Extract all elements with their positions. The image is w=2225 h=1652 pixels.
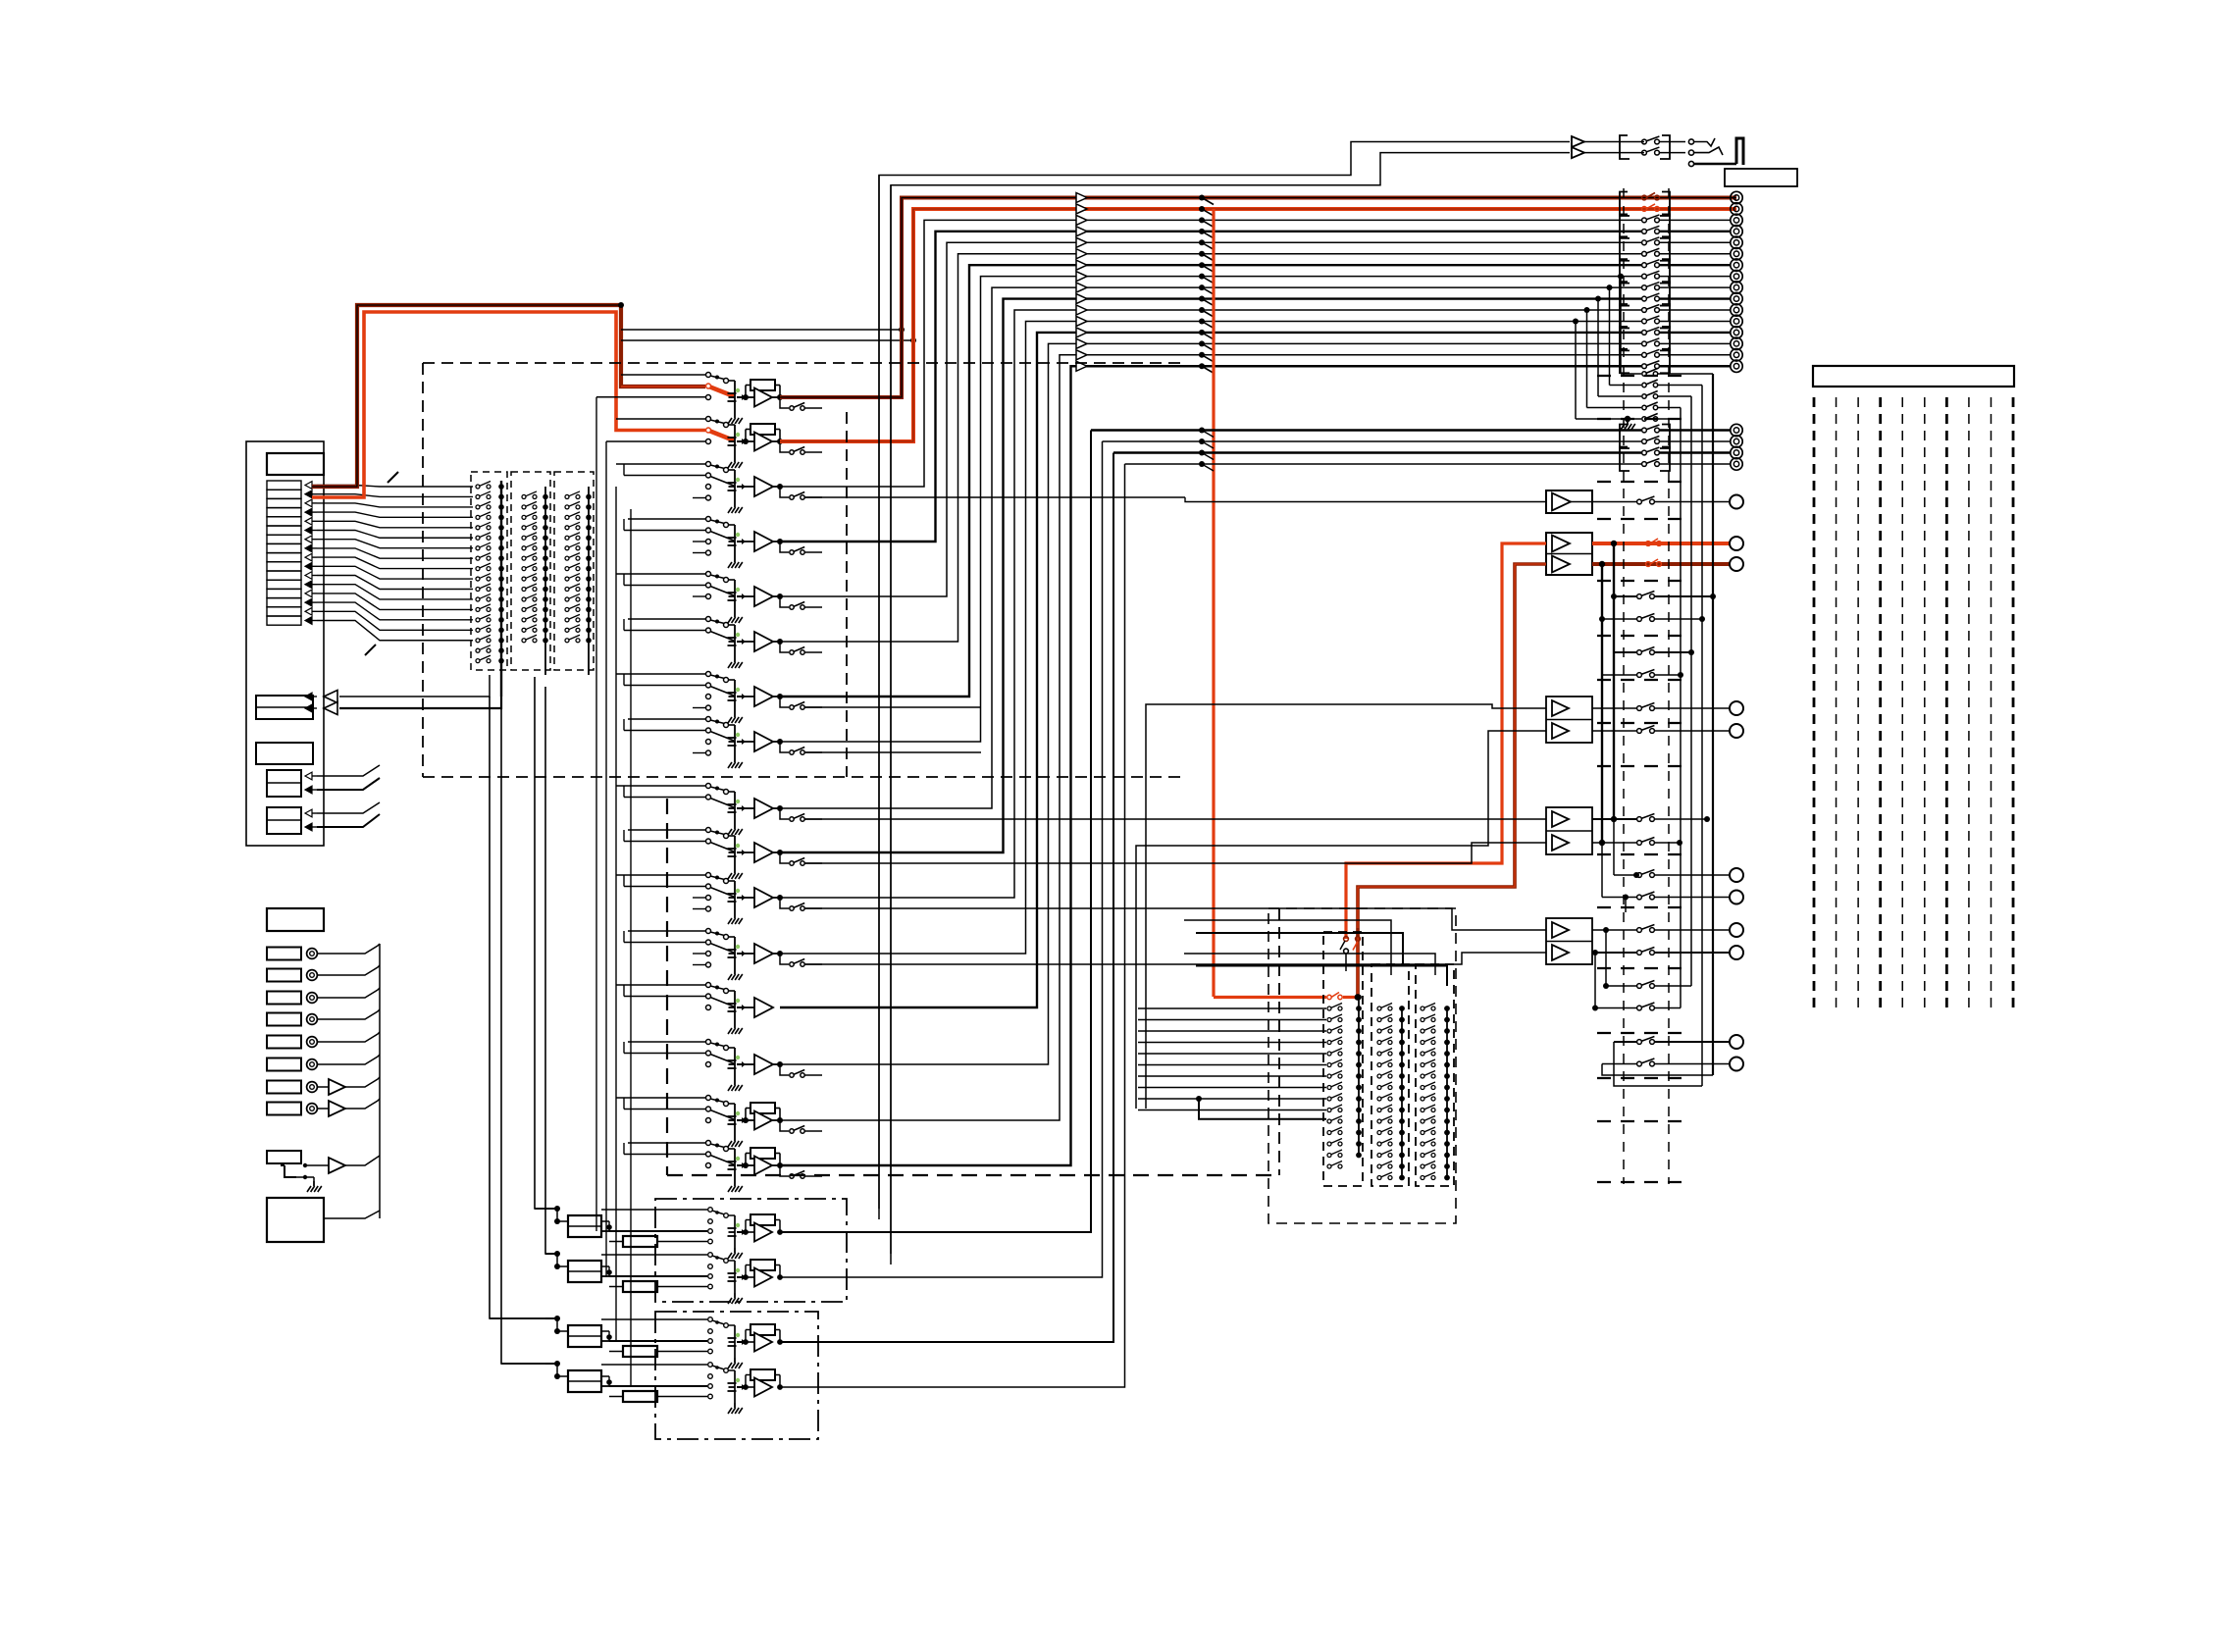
channel group 9 (switch, level, buffer U9, ground) (706, 784, 711, 789)
red vertical switch (1344, 937, 1349, 942)
bus branch wire y336 (621, 329, 902, 331)
red channel2 output to bundle line2 (780, 209, 1736, 441)
RCA input row 4 (267, 1013, 301, 1026)
jack contact 1 (1688, 139, 1693, 144)
channel group 16 (switch, level, buffer U16, ground) (706, 1141, 711, 1146)
channel group 5 (switch, level, buffer U5, ground) (706, 572, 711, 577)
channel group 2 (switch, level, buffer U2, ground) (706, 417, 711, 422)
red loop wire dark (tape in 1 to channel1) (312, 305, 705, 487)
dashed box B (mono channels) (666, 799, 668, 1175)
matrix C feeds col2-col3 (1184, 920, 1391, 975)
bus slash mark upper (388, 472, 398, 483)
aux row arrow 1 (305, 693, 312, 700)
left 2-row box B2 (267, 807, 301, 834)
resistor network group 1 (554, 1206, 560, 1212)
pair3 line 1 (1592, 929, 1636, 931)
b2 arrow 2 (305, 823, 312, 831)
ribbon header box (1813, 366, 2014, 387)
switch matrix column 3 (565, 494, 569, 498)
mono switch (1637, 499, 1642, 504)
matrix C bus 2 (1401, 1008, 1403, 1178)
RCA input row 1 (267, 948, 301, 960)
left multipin connector stack (267, 481, 301, 490)
return switch group (bundle taps to monitors) (1618, 274, 1624, 280)
channel group 7 (switch, level, buffer U7, ground) (706, 672, 711, 677)
pair2 out row 2 (1602, 897, 1636, 899)
red feed R (1358, 564, 1546, 997)
pair1 input 1 (1146, 704, 1546, 1109)
channel group 10 (switch, level, buffer U10, ground) (706, 828, 711, 833)
ribbon cable dashed lines (1813, 397, 1816, 1013)
RCA input row 6 (267, 1058, 301, 1071)
b1 wire 2 (317, 778, 380, 790)
resistor network group 3 (554, 1316, 560, 1321)
matrix C bus 3 (1446, 1008, 1448, 1178)
output switch matrix (3 columns) (1356, 995, 1362, 1001)
jack contact 2 (1688, 150, 1693, 155)
red main buffer box (1546, 533, 1592, 575)
resistor network group 2 (554, 1251, 560, 1257)
matrix C col3 dashed box (1416, 964, 1454, 1186)
dashed box A (stereo channels) (423, 362, 1182, 364)
right rows 1005-1027 (1603, 983, 1609, 989)
matrix column 3 dashed box (554, 472, 594, 670)
junction dot red bus top (618, 302, 624, 308)
bundle switches and output connectors (1642, 195, 1647, 200)
bus slash mark lower (365, 645, 376, 655)
insert bracket marks (1620, 192, 1630, 216)
big box wire (324, 1211, 380, 1218)
left 2-row box B1 (267, 770, 301, 797)
right switch rows 608-688 (1611, 594, 1617, 599)
input bus vertical 4 (630, 509, 632, 1387)
dashed box C (record matrix) (1268, 908, 1456, 1223)
phones jack symbol (285, 1165, 296, 1177)
pair3 line 2 (1592, 952, 1636, 954)
phones buffer (305, 1164, 329, 1166)
channel group 8 (switch, level, buffer U8, ground) (706, 717, 711, 722)
RCA input row 7 (267, 1081, 301, 1094)
aux row arrow 2 (305, 704, 312, 712)
input bus vertical 3 (615, 487, 617, 1342)
red collection bus vertical (1212, 209, 1215, 997)
left label box TOP (267, 453, 324, 475)
mono line (804, 496, 1185, 498)
RCA input row 3 (267, 992, 301, 1005)
pair2 vertical links (1613, 543, 1615, 819)
pair3 inputs (804, 908, 1546, 930)
headphone jack frame (1736, 138, 1743, 165)
bus branch wire y347 (621, 339, 913, 341)
channel group 13 (switch, level, buffer U13, ground) (706, 983, 711, 988)
tape monitor verticals (878, 176, 880, 1210)
b2 wire 1 (317, 802, 380, 813)
channel group 6 (switch, level, buffer U6, ground) (706, 617, 711, 622)
RCA input row 2 (267, 969, 301, 982)
monitor wire B (891, 153, 1570, 1265)
dash-dot box D (655, 1199, 847, 1302)
switch matrix column 1 (476, 485, 480, 489)
resistor network group 4 (554, 1361, 560, 1367)
pair1 line 1 (1592, 707, 1636, 709)
dashed box A right edge (846, 412, 848, 777)
channel input stub wires (616, 463, 705, 465)
pair2 out row 1 (1614, 874, 1636, 876)
bus branch to ch1 top contact (621, 374, 705, 376)
RCA input row 8 (267, 1103, 301, 1115)
channel group 12 (switch, level, buffer U12, ground) (706, 929, 711, 934)
RCA input row 5 (267, 1036, 301, 1049)
bracket marks jack switches (1620, 135, 1630, 159)
bus branch to ch2 top contact (616, 418, 705, 420)
ch1 third contact wire (596, 396, 705, 398)
buffer pair 3 box (1546, 918, 1592, 964)
matrix C col2 dashed box (1371, 964, 1409, 1186)
red feed L (1346, 543, 1546, 939)
pair1 line 2 (1592, 730, 1636, 732)
jack contact 3 (1688, 161, 1693, 166)
aux wire 1 (339, 675, 490, 697)
right jack-field dashed rails (1623, 188, 1625, 1184)
left big box (267, 1198, 324, 1242)
monitor buffer 2 (1572, 147, 1584, 158)
ch2 third contact wire (606, 440, 705, 442)
input bus vertical 1 (595, 397, 597, 1231)
channel group 15 (switch, level, buffer U15, ground) (706, 1096, 711, 1101)
matrix C col1 dashed box (1323, 932, 1363, 1186)
matrix bus 2 (544, 487, 546, 675)
matrix column 2 dashed box (511, 472, 550, 670)
channel group 1 (switch, level, buffer U1, ground) (706, 373, 711, 378)
red channel1 output to bundle line1 (780, 198, 1736, 398)
buffer pair 2 box (1546, 807, 1592, 854)
monitor buffer 1 (1572, 136, 1584, 147)
channel group 11 (switch, level, buffer U11, ground) (706, 873, 711, 878)
phones label box (267, 1151, 301, 1163)
left label box MID (256, 743, 313, 764)
risers from bottom op-amps to aux outputs (780, 431, 1091, 1233)
red matrix entry (1214, 996, 1326, 999)
red loop wire bright (tape in 2 to channel2) (312, 312, 705, 497)
bundle lines switch-to-connector (1660, 219, 1731, 221)
monitor wire A (879, 142, 1570, 1220)
matrix bus 3 (588, 487, 590, 675)
monitor switch 2 (1642, 150, 1647, 155)
b1 arrow 2 (305, 786, 312, 794)
red main connector L (1730, 537, 1743, 550)
pair2 input 1 (804, 818, 1546, 820)
switch matrix column 2 (522, 494, 526, 498)
pair2 input 2 (804, 843, 1546, 863)
red main connector R (1730, 557, 1743, 571)
left bus vertical (379, 944, 381, 1218)
right rows 1062-1083 (1614, 1041, 1636, 1043)
channel group 14 (switch, level, buffer U14, ground) (706, 1040, 711, 1045)
left 2-row box AUX (256, 696, 313, 719)
pair1 input 2 (1136, 731, 1546, 1109)
aux-send output lines and connectors (1091, 429, 1641, 431)
monitor switch 1 (1642, 139, 1647, 144)
red main out L (1592, 542, 1730, 545)
buffer pair 1 box (1546, 697, 1592, 743)
pair2 sw 1 (1611, 816, 1617, 822)
matrix C bus 1 (1358, 998, 1360, 1156)
phones ground (313, 1181, 315, 1186)
mono buffer box (1546, 490, 1592, 513)
red main out R (1592, 562, 1730, 566)
channel7 send stub (804, 706, 981, 708)
channel group 3 (switch, level, buffer U3, ground) (706, 462, 711, 467)
left connector row arrows (305, 482, 312, 490)
b2 wire 2 (317, 814, 380, 827)
aux wire 2 (339, 697, 501, 708)
left label box RCA (267, 908, 324, 931)
channel group 4 (switch, level, buffer U4, ground) (706, 517, 711, 522)
right cluster verticals (1680, 408, 1682, 1008)
left area outer box (246, 441, 324, 846)
monitor label box (1725, 169, 1797, 186)
right jack-field dashed separators (1597, 375, 1685, 377)
wire fan connector-to-matrix (317, 486, 473, 488)
matrix bus 1 (500, 481, 502, 697)
b1 arrow 1 (305, 772, 312, 780)
b2 arrow 1 (305, 809, 312, 817)
bundle buffer arrows and bus-merge dots (1076, 193, 1087, 203)
dash-dot box E (655, 1312, 818, 1439)
pair2 sw 2 (1599, 840, 1605, 846)
input bus vertical 2 (605, 441, 607, 1277)
mono output connector (1730, 495, 1743, 509)
matrix column 1 dashed box (471, 472, 507, 670)
b1 wire 1 (317, 765, 380, 776)
channel8 send stub (804, 751, 981, 753)
matrix C input lines (1138, 1007, 1326, 1009)
feed verticals to resistor groups (535, 677, 545, 1209)
channel output staircase wires to bundle (780, 220, 1641, 487)
